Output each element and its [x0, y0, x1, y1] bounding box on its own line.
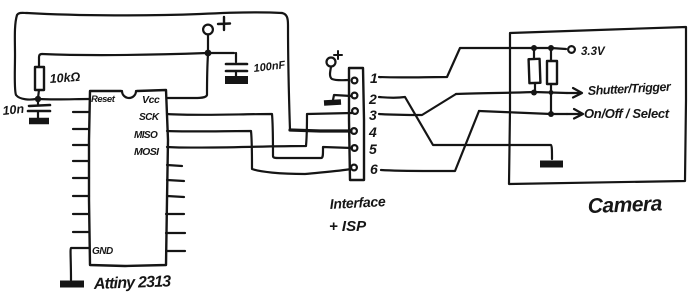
svg-text:100nF: 100nF [253, 59, 286, 75]
svg-text:Vcc: Vcc [142, 94, 160, 106]
svg-text:10n: 10n [2, 102, 25, 118]
wire: reset loop top horizontal [27, 12, 282, 15]
resistor R2 body [529, 48, 541, 91]
wire: 3.3V rail right [533, 48, 566, 49]
wire: on/off row with arrow [479, 109, 583, 119]
wire: reset node to chip Reset pin [38, 98, 89, 101]
junction: Vcc node [205, 50, 212, 57]
svg-text:3.3V: 3.3V [581, 46, 606, 58]
junction: reset node [35, 96, 41, 102]
junction: shutter node [531, 90, 537, 96]
terminal: supply + at J1 [327, 51, 350, 80]
svg-text:MISO: MISO [134, 130, 158, 141]
wire: reset to connector pin 4 [290, 130, 351, 131]
ground: below U1 [60, 281, 84, 288]
svg-text:5: 5 [369, 141, 377, 157]
capacitor C1 10n [28, 99, 50, 118]
terminal: supply + top [203, 17, 230, 51]
pin: U1 left stubs [73, 112, 89, 232]
pin: U1 right stubs [166, 165, 185, 251]
pin: J1 pin3 [352, 108, 358, 114]
junction: R3 top [548, 45, 554, 51]
wire: pin1 to 3.3V rail [379, 48, 533, 77]
wire: Vcc to chip pin [168, 54, 208, 98]
svg-text:GND: GND [92, 246, 113, 257]
pin: J1 pin5 [352, 145, 358, 151]
svg-text:Interface: Interface [329, 193, 386, 212]
svg-text:Shutter/Trigger: Shutter/Trigger [587, 80, 672, 98]
junction: R3 crossing [549, 90, 554, 95]
svg-text:Attiny 2313: Attiny 2313 [93, 273, 172, 293]
pin: J1 pin6 [351, 165, 357, 171]
wire: reset loop left vertical [15, 13, 36, 100]
ground: at J1 pin2 [324, 95, 351, 103]
svg-text:6: 6 [370, 161, 378, 177]
wire: MOSI to pin 3 [167, 113, 352, 148]
pin: J1 pin1 [352, 78, 358, 84]
wire: pin6 to on/off row [381, 111, 479, 171]
junction: R2 top [531, 45, 537, 51]
junction: on/off node [548, 111, 554, 117]
box: camera outline [509, 27, 686, 184]
wire: Vcc rail top [42, 53, 207, 55]
svg-text:+ ISP: + ISP [329, 218, 367, 235]
svg-text:1: 1 [370, 70, 378, 86]
svg-text:MOSI: MOSI [134, 146, 160, 158]
svg-text:Reset: Reset [91, 94, 116, 105]
wire: pin2 to camera ground [379, 97, 552, 159]
IC U1 ATtiny2313 body [89, 90, 168, 266]
wire: reset loop right vertical [282, 13, 290, 130]
svg-text:SCK: SCK [139, 112, 160, 123]
ground: camera gnd bar [540, 161, 563, 168]
pin: J1 pin4 [351, 128, 357, 134]
resistor R3 body [547, 48, 557, 113]
capacitor C2 100nF [225, 53, 248, 80]
svg-text:Camera: Camera [587, 192, 663, 218]
svg-text:3: 3 [369, 107, 377, 123]
wire: Vcc rail to C2 [207, 52, 234, 54]
pin: J1 pin2 [352, 93, 358, 99]
resistor R1 10k body [35, 54, 44, 98]
wire: pin3 to shutter row [379, 94, 456, 115]
svg-text:2: 2 [368, 91, 377, 107]
svg-text:On/Off / Select: On/Off / Select [584, 106, 670, 121]
terminal: 3.3V circle [568, 46, 575, 53]
wire: SCK to pin 5 [167, 114, 352, 158]
connector J1 body [349, 68, 364, 180]
svg-text:4: 4 [368, 124, 377, 140]
wire: GND pin to ground [71, 248, 89, 280]
ground: below C1 [29, 118, 49, 125]
svg-text:10kΩ: 10kΩ [49, 70, 81, 86]
wire: shutter/trigger row with arrow [456, 88, 582, 98]
wire: MISO to pin 6 [167, 131, 351, 174]
